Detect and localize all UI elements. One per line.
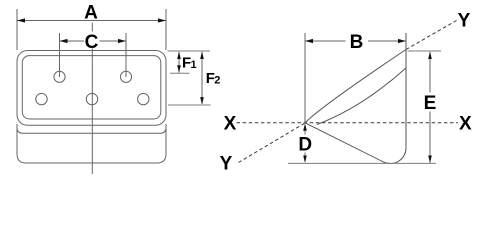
dimension E arrow up xyxy=(428,52,432,60)
F2 dimension line xyxy=(201,52,203,104)
dimension C arrow left xyxy=(60,39,68,43)
dimension D arrow up xyxy=(303,123,307,131)
base seam line xyxy=(17,129,166,134)
F2 arrow down xyxy=(200,97,204,105)
F top extension line xyxy=(168,50,211,52)
svg-text:Y: Y xyxy=(220,154,233,175)
svg-text:A: A xyxy=(84,2,98,23)
dimension A line xyxy=(17,20,166,22)
E bottom extension line xyxy=(288,162,436,164)
hole mid-left xyxy=(36,93,47,104)
svg-text:C: C xyxy=(85,32,99,53)
svg-text:Y: Y xyxy=(458,10,471,31)
dimension C extension right xyxy=(125,33,127,77)
svg-text:B: B xyxy=(350,32,364,53)
Y axis dashed upper segment xyxy=(406,21,457,50)
dimension B line xyxy=(305,40,406,42)
svg-text:X: X xyxy=(224,114,237,135)
svg-text:X: X xyxy=(459,114,472,135)
dimension B arrow right xyxy=(398,39,406,43)
dimension D line lower xyxy=(304,153,306,158)
svg-text:E: E xyxy=(424,93,437,114)
E top extension line xyxy=(408,50,442,52)
profile right edge xyxy=(405,33,407,148)
F1 arrow up xyxy=(177,52,181,60)
dimension A arrow left xyxy=(17,18,25,22)
centerline vertical xyxy=(91,23,93,175)
Y axis dashed lower segment xyxy=(239,123,306,163)
svg-text:2: 2 xyxy=(214,74,220,86)
dimension E line xyxy=(429,52,431,163)
dimension C extension left xyxy=(59,33,61,77)
dimension D arrow down xyxy=(303,156,307,164)
svg-text:1: 1 xyxy=(191,59,197,71)
F1 arrow down xyxy=(177,65,181,73)
F2 bottom extension line xyxy=(168,104,211,106)
dimension A arrow right xyxy=(158,18,166,22)
profile inner diagonal xyxy=(317,68,406,125)
housing inner face xyxy=(22,56,161,119)
dimension B arrow left xyxy=(305,39,313,43)
hole top-right xyxy=(120,71,131,82)
hole top-left xyxy=(54,71,65,82)
F1 bottom tick xyxy=(170,72,190,74)
dimension A extension right xyxy=(165,9,167,50)
dimension C arrow right xyxy=(118,39,126,43)
hole mid-right xyxy=(138,93,149,104)
dimension B extension left xyxy=(304,33,306,123)
F2 arrow up xyxy=(200,52,204,60)
dimension A extension left xyxy=(16,9,18,50)
hole mid-center xyxy=(86,93,97,104)
X axis dashed line xyxy=(237,122,459,124)
dimension E arrow down xyxy=(428,156,432,164)
profile top edge xyxy=(305,50,406,123)
base outline xyxy=(17,124,166,163)
dimension D line upper xyxy=(304,131,306,135)
profile bottom edge and corner arc xyxy=(305,123,406,164)
housing outer body xyxy=(17,51,166,126)
dimension C line xyxy=(60,40,127,42)
F1 dimension line xyxy=(178,52,180,73)
svg-text:D: D xyxy=(298,134,312,155)
